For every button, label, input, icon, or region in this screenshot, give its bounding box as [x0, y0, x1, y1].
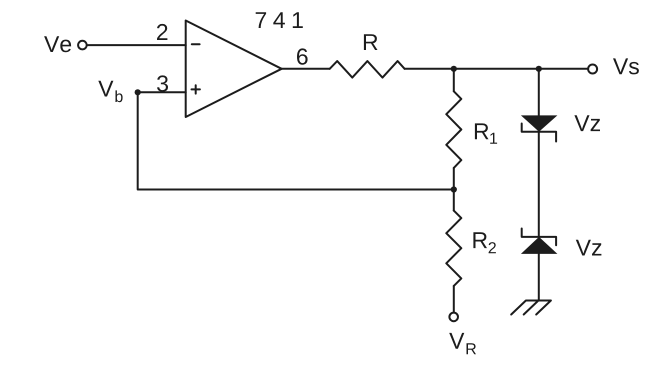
zener diode D2 body [521, 237, 558, 254]
wire node A to node B [454, 68, 539, 70]
wire resistor R to node A [405, 68, 454, 70]
pin 2 label [157, 24, 167, 40]
feedback wire node C to node Vb [138, 92, 454, 189]
node C junction [451, 186, 457, 192]
node B junction [536, 66, 542, 72]
wire node C to resistor R2 [453, 190, 455, 211]
label 741 [256, 12, 303, 28]
terminal VR [449, 313, 458, 322]
zener diode D1 cathode bar [522, 124, 556, 142]
wire pin 6 to resistor R [282, 68, 330, 70]
label Vb [98, 81, 122, 103]
wire node B to zener D1 [538, 69, 540, 116]
op-amp inverting input marker [192, 43, 200, 45]
wire Ve terminal to pin 2 [88, 44, 186, 46]
wire zener D1 to zener D2 [538, 132, 540, 237]
ground symbol [511, 301, 551, 315]
pin 6 label [297, 48, 308, 64]
resistor R value label [364, 34, 378, 50]
pin 3 label [157, 75, 168, 91]
wire resistor R1 to node C [453, 168, 455, 190]
label VR [449, 333, 476, 354]
resistor R1 [446, 91, 461, 168]
label Vz of D1 [574, 115, 600, 131]
label R1 [475, 123, 497, 143]
zener diode D2 cathode bar [522, 229, 556, 246]
wire zener D2 to ground [538, 254, 540, 301]
resistor R2 [446, 211, 461, 286]
wire node B to Vs terminal [539, 68, 587, 70]
op-amp U1 741 [186, 21, 282, 118]
wire node A to resistor R1 [453, 69, 455, 92]
label Vz of D2 [576, 240, 602, 256]
node Vb junction [135, 89, 141, 95]
node A junction [451, 66, 457, 72]
wire node Vb to pin 3 [138, 91, 186, 93]
resistor R [330, 61, 405, 78]
label R2 [473, 232, 496, 253]
label Ve [44, 36, 71, 52]
input terminal Ve [78, 41, 87, 50]
op-amp non-inverting input marker [192, 85, 200, 93]
output terminal Vs [588, 65, 597, 74]
zener diode D1 body [521, 115, 558, 131]
wire resistor R2 to VR terminal [453, 286, 455, 312]
label Vs [613, 58, 639, 74]
